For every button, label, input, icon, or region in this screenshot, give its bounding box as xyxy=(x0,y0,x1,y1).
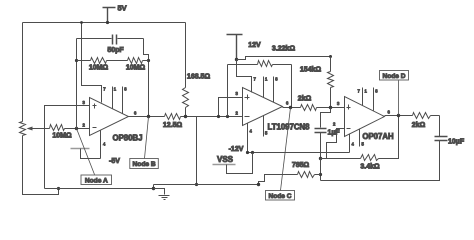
op-amp U1 minus sign xyxy=(93,127,97,129)
svg-text:3: 3 xyxy=(337,101,340,106)
node junction U3 inverting node xyxy=(319,157,322,160)
svg-text:7: 7 xyxy=(358,89,361,94)
node junction VSS riser on rail xyxy=(251,151,254,154)
svg-text:2kΩ: 2kΩ xyxy=(298,96,312,103)
node junction 785 right xyxy=(319,173,322,176)
svg-text:10µF: 10µF xyxy=(448,139,465,146)
pin stub U2 pin8 xyxy=(273,77,275,103)
svg-text:5V: 5V xyxy=(118,4,127,13)
svg-text:3.4kΩ: 3.4kΩ xyxy=(360,164,380,171)
svg-text:4: 4 xyxy=(103,142,106,147)
svg-text:1: 1 xyxy=(265,77,268,82)
op-amp U2 plus sign xyxy=(245,95,250,100)
wire U2 output to U3 plus input xyxy=(283,107,345,109)
pin stub U1 pin1 xyxy=(112,87,114,109)
wire 2k to C3 xyxy=(439,116,441,137)
power -5V V2 xyxy=(71,148,90,150)
svg-text:OP07AH: OP07AH xyxy=(362,132,394,141)
wire left drop from rail to potentiometer xyxy=(22,23,24,122)
node junction U2 plus feed xyxy=(217,115,220,118)
resistor R4 10MOhm feedback b xyxy=(128,58,143,64)
svg-text:3: 3 xyxy=(236,91,239,96)
wire C2 bottom to inverting node U3 xyxy=(320,133,322,175)
resistor R12 785Ohm xyxy=(298,172,315,178)
ground symbol xyxy=(159,196,170,200)
wire 5V supply feed to U1 pin7 xyxy=(82,23,102,103)
svg-text:3.22kΩ: 3.22kΩ xyxy=(272,46,296,53)
wire 12V to U2 pin7 xyxy=(237,60,252,93)
wire feedback box right edge with jog xyxy=(144,39,149,117)
wire U3 inverting input route xyxy=(321,129,345,159)
svg-text:-12V: -12V xyxy=(229,146,244,153)
svg-text:7: 7 xyxy=(254,77,257,82)
svg-text:1: 1 xyxy=(114,87,117,92)
wire R2 to inverting node xyxy=(65,128,90,130)
node junction feedback left mid xyxy=(75,59,78,62)
wire 1uF drop from plus node xyxy=(321,108,331,128)
svg-text:Node B: Node B xyxy=(133,161,156,168)
resistor R9 154kOhm xyxy=(328,72,334,88)
node junction U3 plus node xyxy=(329,106,332,109)
svg-text:-5V: -5V xyxy=(109,158,120,165)
wire -5V to U1 pin4 xyxy=(81,149,101,159)
pin stub U3 pin4 wire to -12V rail xyxy=(349,134,351,153)
svg-text:12.5Ω: 12.5Ω xyxy=(163,122,183,129)
svg-text:2: 2 xyxy=(83,123,86,128)
node junction U2 feedback tap xyxy=(226,115,229,118)
pin stub U1 pin4 xyxy=(100,131,102,159)
capacitor C1 50pF xyxy=(112,34,118,45)
svg-text:Node C: Node C xyxy=(268,193,291,200)
node junction staircase xyxy=(257,183,260,186)
node junction U1 output xyxy=(147,115,150,118)
wire U3 output xyxy=(385,115,440,117)
pin stub U3 pin8 xyxy=(373,88,375,111)
op-amp U1 plus sign xyxy=(93,104,97,109)
pin stub U3 pin1 xyxy=(362,88,364,106)
wire C3 bottom return rail xyxy=(321,141,440,181)
pin stub U2 pin1 xyxy=(263,77,265,98)
svg-text:5: 5 xyxy=(362,142,365,147)
node B pointer xyxy=(145,117,149,159)
svg-text:2: 2 xyxy=(236,111,239,116)
svg-text:154kΩ: 154kΩ xyxy=(300,67,322,74)
wire pot bottom to bottom rail xyxy=(23,136,59,195)
node junction 12V xyxy=(235,58,238,61)
resistor R11 2kOhm stage3 output xyxy=(413,113,431,119)
wire feedback box 2 right edge xyxy=(291,65,293,108)
svg-text:785Ω: 785Ω xyxy=(292,162,310,169)
op-amp U3 plus sign xyxy=(347,105,351,110)
op-amp U3 minus sign xyxy=(347,128,351,130)
svg-text:1: 1 xyxy=(365,89,368,94)
svg-text:3: 3 xyxy=(83,100,86,105)
wire U2 noninverting feed xyxy=(219,98,243,117)
wire R12 left lead staircase to mid ground rail xyxy=(259,175,298,185)
resistor R6 168.5Ohm xyxy=(183,88,189,108)
node junction R6 bottom xyxy=(184,115,187,118)
node junction rail step xyxy=(152,187,155,190)
wire ground tap xyxy=(154,189,165,195)
op-amp U2 minus sign xyxy=(245,116,250,118)
wire rail step left xyxy=(153,185,155,189)
node A label box xyxy=(81,175,112,185)
svg-text:7: 7 xyxy=(103,87,106,92)
svg-text:Node D: Node D xyxy=(382,73,405,80)
op-amp U2 LT1097CN8 triangle xyxy=(243,88,283,126)
svg-text:10MΩ: 10MΩ xyxy=(126,65,146,72)
node junction pot-return on bottom rail xyxy=(57,187,60,190)
svg-text:Node A: Node A xyxy=(85,178,108,185)
node junction feedback mid right xyxy=(147,59,150,62)
node junction inverting input U1 xyxy=(75,127,78,130)
wire node line drop to ground rail xyxy=(196,117,198,185)
svg-text:8: 8 xyxy=(375,89,378,94)
power -12V rail xyxy=(248,152,350,154)
wire mid ground rail xyxy=(154,184,259,186)
potentiometer wiper arrow xyxy=(29,128,50,130)
svg-text:12V: 12V xyxy=(248,42,261,49)
wire VSS to rail xyxy=(227,153,253,174)
svg-text:168.5Ω: 168.5Ω xyxy=(187,74,211,81)
power 5V V1 xyxy=(103,8,116,23)
node D pointer xyxy=(398,81,400,116)
node B label box xyxy=(130,159,159,169)
resistor R7 3.22kOhm feedback xyxy=(258,61,273,67)
node junction 154k top corner xyxy=(329,55,332,58)
wire feedback mid line xyxy=(77,60,149,62)
wire bottom-left ground rail xyxy=(45,188,154,190)
wire feedback box top edge xyxy=(77,38,144,40)
node junction pin4 U2 on rail xyxy=(246,151,249,154)
wire op-amp U1 noninverting input from ground rail xyxy=(45,106,90,189)
svg-text:OP80BJ: OP80BJ xyxy=(113,134,143,143)
node junction 5V stub xyxy=(106,21,109,24)
wire R6 bottom to node line xyxy=(185,108,187,117)
svg-text:2kΩ: 2kΩ xyxy=(412,122,426,129)
potentiometer R1 body xyxy=(20,122,26,136)
wire 5V rail drop to 168.5Ohm xyxy=(185,23,187,88)
resistor R5 12.5Ohm xyxy=(165,114,181,120)
svg-text:6: 6 xyxy=(388,110,391,115)
wire 3.4k leads xyxy=(321,116,399,159)
wire 154k top and bottom leads xyxy=(330,57,332,108)
power 12V V3 xyxy=(227,35,243,60)
wire U1 output run to U2 inverting input xyxy=(129,116,243,118)
node junction U3 output xyxy=(397,114,400,117)
op-amp U1 OP80BJ triangle xyxy=(90,98,129,136)
wire feedback box 2 top edge xyxy=(228,64,292,66)
svg-text:8: 8 xyxy=(124,87,127,92)
wire 12V to 154kOhm top xyxy=(237,57,331,60)
op-amp U3 OP07AH triangle xyxy=(345,97,385,137)
capacitor C3 10uF xyxy=(435,137,448,141)
svg-text:1µF: 1µF xyxy=(328,130,341,137)
svg-text:6: 6 xyxy=(286,101,289,106)
pin stub U1 pin8 xyxy=(122,87,124,114)
node junction drop bottom xyxy=(195,183,198,186)
resistor R2 10MOhm input to inverting node xyxy=(50,125,65,131)
capacitor C2 1uF xyxy=(315,129,327,133)
wire 5V top rail xyxy=(23,22,186,24)
wire 785 node jog xyxy=(320,159,322,181)
node C label box xyxy=(266,191,295,201)
pin stub U3 pin5 xyxy=(359,129,361,147)
svg-text:4: 4 xyxy=(250,129,253,134)
svg-text:10MΩ: 10MΩ xyxy=(52,133,72,140)
svg-text:VSS: VSS xyxy=(217,155,234,164)
svg-text:6: 6 xyxy=(134,111,137,116)
pin stub U2 pin4 wire to -12V rail xyxy=(247,124,249,153)
resistor R3 10MOhm feedback a xyxy=(91,58,107,64)
node junction 5V feed on rail xyxy=(80,21,83,24)
resistor R10 3.4kOhm feedback U3 xyxy=(361,155,379,161)
node A pointer xyxy=(77,129,95,175)
wire feedback box 2 left edge xyxy=(227,65,229,117)
node C pointer xyxy=(281,108,291,191)
node junction U2 output xyxy=(289,106,292,109)
svg-text:50pF: 50pF xyxy=(107,47,124,54)
node D label box xyxy=(380,71,409,81)
svg-text:8: 8 xyxy=(275,77,278,82)
wire R12 right lead xyxy=(315,174,321,176)
resistor R8 2kOhm stage2 output xyxy=(301,105,317,111)
wire feedback box left edge xyxy=(76,39,78,129)
svg-text:4: 4 xyxy=(352,142,355,147)
pin stub U2 pin5 xyxy=(263,116,265,137)
svg-text:2: 2 xyxy=(333,122,336,127)
svg-text:10MΩ: 10MΩ xyxy=(89,65,109,72)
